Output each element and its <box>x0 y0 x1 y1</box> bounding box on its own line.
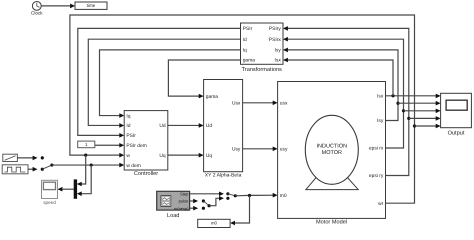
svg-text:w dem: w dem <box>126 163 140 169</box>
svg-text:Isx: Isx <box>275 58 282 64</box>
svg-text:epsi ry: epsi ry <box>369 173 384 179</box>
svg-text:Isy: Isy <box>275 48 282 54</box>
svg-text:Ud: Ud <box>159 123 166 129</box>
svg-text:INDUCTION: INDUCTION <box>317 143 348 149</box>
svg-text:usx: usx <box>280 102 288 107</box>
svg-text:PSIry: PSIry <box>269 26 282 32</box>
svg-text:time: time <box>87 3 96 8</box>
svg-text:usy: usy <box>280 148 288 153</box>
svg-text:Id: Id <box>126 123 130 129</box>
svg-text:gama: gama <box>206 95 219 100</box>
svg-text:Ud: Ud <box>206 123 213 129</box>
svg-text:m0: m0 <box>280 193 287 199</box>
svg-text:w: w <box>126 154 130 159</box>
svg-text:speed: speed <box>43 200 56 205</box>
svg-text:MOTOR: MOTOR <box>322 150 342 156</box>
svg-text:Usy: Usy <box>232 147 241 153</box>
svg-text:Usx: Usx <box>232 101 241 107</box>
svg-text:Step: Step <box>180 191 189 196</box>
svg-text:Controller: Controller <box>134 170 158 177</box>
svg-text:Iq: Iq <box>126 113 130 119</box>
svg-text:Iq: Iq <box>243 48 247 54</box>
svg-text:Uq: Uq <box>206 153 213 159</box>
svg-text:Uq: Uq <box>159 153 166 159</box>
svg-text:gama: gama <box>243 59 256 64</box>
svg-text:PSIr: PSIr <box>126 133 136 139</box>
svg-text:Id: Id <box>243 37 247 43</box>
svg-text:m(nesp): m(nesp) <box>174 206 189 211</box>
svg-text:Load: Load <box>167 212 179 219</box>
svg-text:PSIr dem: PSIr dem <box>126 143 146 149</box>
svg-text:Clock: Clock <box>31 11 43 16</box>
svg-text:m0: m0 <box>211 221 218 226</box>
svg-text:Transformations: Transformations <box>242 66 282 73</box>
svg-text:XY 2 Alpha-Beta: XY 2 Alpha-Beta <box>205 172 242 178</box>
svg-text:pulse: pulse <box>179 199 190 204</box>
svg-text:Isx: Isx <box>377 93 384 99</box>
svg-text:epsi rx: epsi rx <box>369 146 384 152</box>
svg-text:PSIrx: PSIrx <box>269 37 282 43</box>
svg-text:Output: Output <box>448 130 465 136</box>
svg-text:Motor Model: Motor Model <box>316 219 347 226</box>
svg-text:Isy: Isy <box>377 118 384 124</box>
svg-text:wr: wr <box>378 202 384 207</box>
svg-text:PSIr: PSIr <box>243 26 253 32</box>
